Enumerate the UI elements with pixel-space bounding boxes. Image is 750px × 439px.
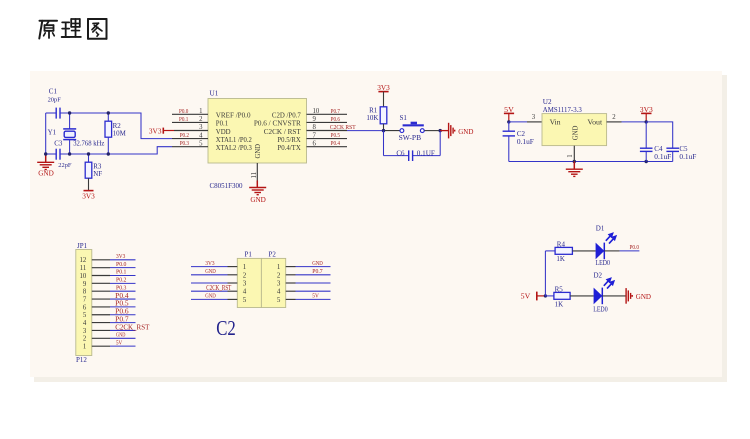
resistor R4 bbox=[555, 247, 572, 254]
wire bbox=[604, 250, 619, 252]
IC U1 body bbox=[208, 99, 307, 164]
svg-text:C6: C6 bbox=[396, 149, 405, 157]
svg-text:R4: R4 bbox=[557, 240, 566, 248]
resistor R1 bbox=[380, 107, 387, 124]
svg-text:5V: 5V bbox=[312, 293, 319, 300]
JP1 pin 6 bbox=[92, 306, 110, 308]
svg-text:4: 4 bbox=[199, 132, 203, 139]
connector P1 body bbox=[237, 258, 261, 307]
svg-text:GND: GND bbox=[254, 144, 262, 159]
svg-text:0.1UF: 0.1UF bbox=[417, 149, 435, 157]
JP1 pin 7 bbox=[92, 298, 110, 300]
svg-text:P2: P2 bbox=[269, 250, 277, 258]
svg-text:P0.5/RX: P0.5/RX bbox=[277, 136, 301, 144]
U1 pin 9 bbox=[307, 121, 348, 123]
svg-text:1: 1 bbox=[243, 263, 247, 271]
junction bbox=[87, 152, 90, 155]
U1 pin 11 bbox=[256, 163, 258, 182]
svg-text:4: 4 bbox=[277, 288, 281, 296]
connector P2 body bbox=[261, 258, 285, 307]
junction bbox=[645, 160, 648, 163]
svg-text:1K: 1K bbox=[555, 301, 564, 309]
svg-text:SW-PB: SW-PB bbox=[399, 133, 422, 142]
power 3V3 bbox=[84, 190, 94, 192]
svg-text:P0.1: P0.1 bbox=[179, 116, 188, 123]
svg-text:C2CK RST: C2CK RST bbox=[330, 124, 356, 131]
svg-text:7: 7 bbox=[83, 296, 87, 303]
wire bbox=[508, 136, 510, 161]
svg-text:10: 10 bbox=[313, 108, 320, 115]
svg-text:P0.4: P0.4 bbox=[331, 140, 340, 147]
U1 pin 8 bbox=[307, 130, 348, 132]
svg-text:C2CK_RST: C2CK_RST bbox=[206, 284, 231, 292]
svg-text:JP1: JP1 bbox=[77, 242, 88, 250]
junction bbox=[68, 152, 71, 155]
svg-text:2: 2 bbox=[277, 271, 281, 279]
wire bbox=[383, 131, 385, 156]
wire bbox=[296, 274, 331, 276]
P1 pin 5 bbox=[228, 298, 238, 300]
title 原理图 bbox=[39, 19, 106, 39]
wire bbox=[645, 122, 647, 148]
svg-text:P0.6: P0.6 bbox=[115, 308, 129, 316]
U1 pin 1 bbox=[172, 113, 208, 115]
P2 pin 3 bbox=[286, 282, 296, 284]
svg-text:2: 2 bbox=[83, 336, 87, 343]
junction bbox=[107, 152, 110, 155]
svg-text:7: 7 bbox=[313, 132, 317, 139]
wire bbox=[191, 290, 228, 292]
wire bbox=[110, 306, 136, 308]
svg-text:Vout: Vout bbox=[587, 119, 602, 127]
resistor R2 bbox=[107, 113, 109, 121]
svg-text:4: 4 bbox=[83, 320, 87, 327]
svg-text:6: 6 bbox=[313, 140, 317, 147]
svg-text:5: 5 bbox=[243, 296, 247, 304]
svg-text:P0.0: P0.0 bbox=[116, 261, 126, 268]
junction bbox=[507, 120, 510, 123]
svg-text:GND: GND bbox=[38, 170, 54, 178]
svg-text:22pF: 22pF bbox=[58, 162, 72, 169]
junction bbox=[645, 120, 648, 123]
schematic canvas background bbox=[30, 71, 722, 377]
wire bbox=[645, 152, 647, 162]
IC U2 body bbox=[542, 114, 607, 146]
wire bbox=[46, 153, 56, 155]
svg-text:10K: 10K bbox=[366, 114, 378, 122]
wire bbox=[110, 329, 136, 331]
svg-text:11: 11 bbox=[251, 172, 258, 179]
svg-text:P0.5: P0.5 bbox=[331, 132, 340, 139]
svg-text:5V: 5V bbox=[521, 292, 531, 301]
resistor R5 bbox=[554, 292, 570, 299]
ground bbox=[256, 181, 258, 188]
ground bbox=[440, 130, 448, 132]
svg-text:GND: GND bbox=[312, 260, 323, 267]
wire bbox=[110, 298, 136, 300]
svg-text:3: 3 bbox=[83, 328, 87, 335]
power 3V3 bbox=[162, 128, 164, 134]
svg-text:5: 5 bbox=[199, 140, 203, 147]
svg-text:1K: 1K bbox=[556, 255, 565, 263]
wire bbox=[602, 295, 626, 297]
svg-text:C2CK_RST: C2CK_RST bbox=[115, 323, 150, 331]
wire bbox=[191, 282, 228, 284]
svg-text:9: 9 bbox=[313, 116, 317, 123]
capacitor C5 bbox=[666, 147, 679, 149]
svg-text:5: 5 bbox=[277, 296, 281, 304]
wire bbox=[439, 131, 441, 156]
svg-text:P0.1: P0.1 bbox=[216, 120, 229, 128]
JP1 pin 1 bbox=[92, 345, 110, 347]
wire bbox=[509, 161, 673, 163]
wire bbox=[572, 250, 595, 252]
wire bbox=[622, 121, 647, 123]
U1 pin 6 bbox=[307, 146, 348, 148]
svg-text:8: 8 bbox=[83, 289, 87, 296]
svg-text:C4: C4 bbox=[654, 145, 663, 153]
U2 pin 2 bbox=[607, 121, 622, 123]
svg-text:3: 3 bbox=[243, 280, 247, 288]
wire bbox=[672, 152, 674, 162]
wire bbox=[296, 282, 331, 284]
wire bbox=[191, 266, 228, 268]
svg-text:P0.5: P0.5 bbox=[115, 300, 129, 308]
svg-text:0.1uF: 0.1uF bbox=[654, 154, 671, 161]
svg-text:C3: C3 bbox=[54, 139, 63, 147]
svg-text:U1: U1 bbox=[210, 90, 219, 98]
junction bbox=[573, 160, 576, 163]
U1 pin 3 bbox=[174, 130, 208, 132]
svg-text:3V3: 3V3 bbox=[205, 260, 214, 267]
wire bbox=[110, 314, 136, 316]
capacitor C1 bbox=[55, 108, 57, 119]
svg-text:R5: R5 bbox=[555, 285, 564, 293]
wire bbox=[646, 122, 673, 148]
JP1 pin 8 bbox=[92, 290, 110, 292]
svg-text:20pF: 20pF bbox=[48, 97, 62, 104]
svg-text:P0.6 / CNVSTR: P0.6 / CNVSTR bbox=[254, 120, 301, 128]
svg-text:P0.1: P0.1 bbox=[116, 269, 126, 276]
svg-text:3V3: 3V3 bbox=[82, 192, 95, 201]
svg-text:10M: 10M bbox=[113, 130, 127, 138]
wire bbox=[296, 266, 331, 268]
svg-text:5: 5 bbox=[83, 312, 87, 319]
svg-text:NF: NF bbox=[93, 170, 102, 178]
wire bbox=[508, 122, 510, 131]
JP1 pin 10 bbox=[92, 275, 110, 277]
svg-text:C2CK / RST: C2CK / RST bbox=[264, 128, 302, 136]
svg-text:C1: C1 bbox=[49, 88, 58, 96]
JP1 pin 2 bbox=[92, 337, 110, 339]
wire bbox=[384, 130, 400, 132]
U2 pin 3 bbox=[527, 121, 542, 123]
svg-text:C8051F300: C8051F300 bbox=[210, 182, 243, 190]
capacitor C3 bbox=[55, 149, 57, 160]
svg-text:P0.4: P0.4 bbox=[115, 292, 129, 300]
svg-text:XTAL2 /P0.3: XTAL2 /P0.3 bbox=[216, 144, 252, 152]
svg-text:1: 1 bbox=[277, 263, 281, 271]
svg-text:2: 2 bbox=[612, 114, 616, 121]
U1 pin 5 bbox=[172, 146, 208, 148]
svg-text:AMS1117-3.3: AMS1117-3.3 bbox=[543, 107, 583, 114]
svg-text:5V: 5V bbox=[116, 339, 123, 346]
svg-text:P12: P12 bbox=[76, 356, 87, 364]
svg-text:3V3: 3V3 bbox=[149, 126, 162, 135]
svg-text:GND: GND bbox=[458, 127, 474, 136]
wire bbox=[191, 298, 228, 300]
svg-text:3: 3 bbox=[277, 280, 281, 288]
svg-text:P0.3: P0.3 bbox=[180, 140, 189, 147]
svg-text:D2: D2 bbox=[594, 271, 603, 279]
svg-text:GND: GND bbox=[571, 126, 579, 141]
JP1 pin 11 bbox=[92, 267, 110, 269]
svg-text:P0.3: P0.3 bbox=[116, 284, 126, 291]
wire bbox=[545, 250, 555, 252]
wire bbox=[45, 113, 47, 154]
svg-text:9: 9 bbox=[83, 281, 87, 288]
svg-text:2: 2 bbox=[199, 116, 203, 123]
LED D1 bbox=[596, 243, 605, 260]
ground bbox=[45, 154, 47, 162]
P1 pin 2 bbox=[228, 274, 238, 276]
svg-text:VDD: VDD bbox=[216, 128, 231, 136]
svg-text:8: 8 bbox=[313, 124, 317, 131]
U1 pin 4 bbox=[172, 138, 208, 140]
wire bbox=[384, 155, 409, 157]
P1 pin 4 bbox=[228, 290, 238, 292]
wire bbox=[620, 250, 640, 252]
svg-text:VREF /P0.0: VREF /P0.0 bbox=[216, 112, 251, 120]
svg-text:C2: C2 bbox=[517, 130, 526, 138]
wire bbox=[60, 147, 172, 154]
svg-text:LED0: LED0 bbox=[593, 305, 608, 313]
wire bbox=[509, 121, 527, 123]
svg-text:P0.7: P0.7 bbox=[312, 268, 322, 275]
ground bbox=[625, 288, 627, 304]
svg-text:3V3: 3V3 bbox=[640, 105, 653, 114]
svg-text:6: 6 bbox=[83, 304, 87, 311]
wire bbox=[110, 322, 136, 324]
wire bbox=[110, 345, 136, 347]
U2 pin 1 bbox=[573, 146, 575, 162]
wire bbox=[296, 298, 331, 300]
LED D2 bbox=[594, 288, 603, 305]
U1 pin 2 bbox=[172, 121, 208, 123]
switch S1 bbox=[400, 129, 404, 133]
svg-text:P0.2: P0.2 bbox=[180, 132, 189, 139]
svg-text:D1: D1 bbox=[596, 224, 605, 232]
svg-text:2: 2 bbox=[243, 271, 247, 279]
svg-text:4: 4 bbox=[243, 288, 247, 296]
svg-text:GND: GND bbox=[205, 293, 216, 300]
svg-text:C5: C5 bbox=[679, 145, 688, 153]
JP1 pin 3 bbox=[92, 329, 110, 331]
P2 pin 1 bbox=[286, 266, 296, 268]
svg-text:0.1uF: 0.1uF bbox=[517, 139, 534, 146]
svg-text:XTAL1 /P0.2: XTAL1 /P0.2 bbox=[216, 136, 252, 144]
wire bbox=[46, 112, 56, 114]
wire bbox=[296, 290, 331, 292]
junction bbox=[68, 111, 71, 114]
wire bbox=[544, 251, 546, 296]
svg-text:11: 11 bbox=[80, 265, 87, 272]
svg-text:GND: GND bbox=[636, 292, 652, 301]
wire bbox=[545, 295, 554, 297]
svg-text:S1: S1 bbox=[400, 114, 408, 122]
resistor R3 bbox=[88, 154, 90, 162]
svg-text:GND: GND bbox=[205, 268, 216, 275]
wire bbox=[110, 337, 136, 339]
wire bbox=[110, 290, 136, 292]
svg-text:LED0: LED0 bbox=[596, 259, 611, 267]
P2 pin 4 bbox=[286, 290, 296, 292]
JP1 pin 5 bbox=[92, 314, 110, 316]
wire bbox=[60, 113, 172, 139]
svg-text:C2: C2 bbox=[216, 316, 236, 340]
wire bbox=[570, 295, 594, 297]
svg-text:0.1uF: 0.1uF bbox=[679, 154, 696, 161]
svg-text:12: 12 bbox=[80, 257, 87, 264]
svg-text:10: 10 bbox=[80, 273, 87, 280]
svg-text:P0.0: P0.0 bbox=[179, 108, 188, 115]
wire bbox=[110, 282, 136, 284]
junction bbox=[382, 129, 385, 132]
JP1 pin 9 bbox=[92, 282, 110, 284]
svg-text:C2D /P0.7: C2D /P0.7 bbox=[272, 112, 301, 120]
wire bbox=[425, 130, 441, 132]
svg-text:U2: U2 bbox=[543, 98, 552, 106]
P1 pin 1 bbox=[228, 266, 238, 268]
svg-text:P0.4/TX: P0.4/TX bbox=[277, 144, 301, 152]
wire bbox=[347, 130, 384, 132]
svg-text:GND: GND bbox=[116, 332, 126, 339]
svg-text:GND: GND bbox=[250, 196, 266, 204]
junction bbox=[107, 111, 110, 114]
svg-text:P0.7: P0.7 bbox=[115, 315, 129, 323]
P1 pin 3 bbox=[228, 282, 238, 284]
wire bbox=[110, 275, 136, 277]
svg-text:1: 1 bbox=[199, 108, 202, 115]
capacitor C4 bbox=[640, 147, 653, 149]
svg-text:5V: 5V bbox=[504, 105, 514, 114]
svg-text:3V3: 3V3 bbox=[377, 83, 390, 92]
capacitor C6 bbox=[408, 150, 410, 161]
U1 pin 7 bbox=[307, 138, 348, 140]
svg-text:3: 3 bbox=[199, 124, 203, 131]
junction bbox=[439, 129, 442, 132]
svg-text:32.768 kHz: 32.768 kHz bbox=[73, 140, 104, 147]
wire bbox=[191, 274, 228, 276]
junction bbox=[44, 152, 47, 155]
svg-text:P0.7: P0.7 bbox=[331, 108, 340, 115]
crystal Y1 bbox=[69, 113, 71, 129]
svg-text:1: 1 bbox=[567, 154, 574, 157]
JP1 pin 12 bbox=[92, 259, 110, 261]
connector JP1 body bbox=[76, 250, 92, 356]
ground bbox=[573, 162, 575, 170]
svg-text:P1: P1 bbox=[245, 250, 253, 258]
P2 pin 5 bbox=[286, 298, 296, 300]
junction bbox=[544, 294, 547, 297]
svg-text:P0.2: P0.2 bbox=[116, 277, 126, 284]
svg-text:3V3: 3V3 bbox=[116, 253, 125, 260]
JP1 pin 4 bbox=[92, 322, 110, 324]
wire bbox=[110, 259, 136, 261]
P2 pin 2 bbox=[286, 274, 296, 276]
U1 pin 10 bbox=[307, 113, 348, 115]
svg-text:P0.6: P0.6 bbox=[331, 116, 340, 123]
capacitor C2 bbox=[503, 130, 515, 132]
wire bbox=[413, 155, 440, 157]
wire bbox=[110, 267, 136, 269]
svg-text:1: 1 bbox=[83, 344, 86, 351]
svg-text:Y1: Y1 bbox=[48, 129, 57, 137]
svg-text:Vin: Vin bbox=[550, 119, 561, 127]
svg-text:P0.0: P0.0 bbox=[630, 245, 640, 251]
svg-text:3: 3 bbox=[532, 114, 536, 121]
